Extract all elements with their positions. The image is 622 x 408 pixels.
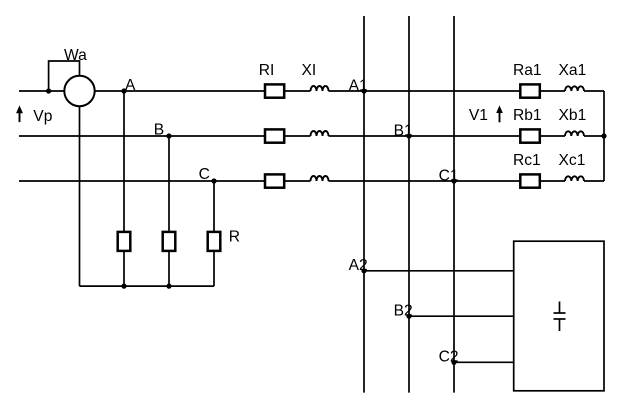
resistor RI phase C (265, 174, 284, 187)
wire phase A left segment (19, 90, 64, 92)
svg-text:Ra1: Ra1 (513, 62, 542, 79)
wire phase C from Xc1 to right bus (584, 180, 604, 182)
junction neutral at B resistor (166, 284, 171, 289)
svg-text:V1: V1 (469, 107, 488, 124)
wire phase B from RI to XI (284, 135, 310, 137)
arrow Vp (16, 105, 23, 122)
svg-text:Rb1: Rb1 (513, 107, 542, 124)
inductor Xb1 (565, 131, 584, 136)
wire phase A from Xa1 to right bus (584, 90, 604, 92)
svg-text:R: R (229, 228, 240, 245)
node C1 (451, 178, 456, 183)
wire right bus joining load phases (603, 91, 605, 181)
svg-text:Wa: Wa (64, 47, 87, 64)
svg-text:Xb1: Xb1 (559, 107, 587, 124)
resistor RI phase B (265, 129, 284, 142)
svg-text:C: C (199, 166, 210, 183)
svg-text:XI: XI (302, 62, 317, 79)
resistor Rc1 (520, 174, 540, 187)
junction neutral at A resistor (121, 284, 126, 289)
junction wattmeter voltage tap (46, 88, 51, 93)
node B1 (406, 133, 411, 138)
node C (211, 178, 216, 183)
svg-text:C1: C1 (439, 167, 459, 184)
wire A2 to capacitor box (364, 270, 514, 272)
resistor R (phase C leg) (208, 232, 221, 251)
svg-text:A: A (125, 77, 136, 94)
resistor R (phase B leg) (163, 232, 176, 251)
wire phase C left segment (19, 180, 265, 182)
wire phase B from XI to Rb1 (329, 135, 521, 137)
wire phase C from Rc1 to Xc1 (540, 180, 565, 182)
node C2 (451, 360, 456, 365)
junction right bus at phase B (601, 133, 606, 138)
svg-text:A1: A1 (349, 77, 368, 94)
resistor Rb1 (520, 129, 540, 142)
wire resistor C to neutral line (213, 251, 215, 286)
wire C2 to capacitor box (454, 361, 514, 363)
wire wattmeter bottom drop (79, 106, 81, 286)
wire phase B from Rb1 to Xb1 (540, 135, 565, 137)
bus line 1 (363, 16, 365, 393)
capacitor bank box (514, 241, 604, 391)
inductor Xa1 (565, 86, 584, 91)
svg-text:Vp: Vp (33, 108, 52, 125)
wire phase A from XI to Ra1 (329, 90, 521, 92)
arrow V1 (496, 105, 503, 122)
resistor R (phase A leg) (118, 232, 131, 251)
svg-text:RI: RI (259, 62, 275, 79)
wire phase C from XI to Rc1 (329, 180, 521, 182)
inductor XI phase C (311, 176, 329, 181)
svg-text:Xc1: Xc1 (559, 152, 586, 169)
wire node C drop to resistor (213, 181, 215, 232)
wire node B drop to resistor (168, 136, 170, 232)
wire phase A from wattmeter to resistor RI (95, 90, 265, 92)
svg-text:Xa1: Xa1 (559, 62, 587, 79)
wire resistor B to neutral line (168, 251, 170, 286)
node A (121, 88, 126, 93)
node B2 (406, 314, 411, 319)
resistor RI phase A (265, 84, 284, 97)
wire node A drop to resistor (123, 91, 125, 232)
wire phase A from RI to XI (284, 90, 310, 92)
inductor XI phase B (311, 131, 329, 136)
resistor Ra1 (520, 84, 540, 97)
wire B2 to capacitor box (409, 315, 514, 317)
inductor XI phase A (311, 86, 329, 91)
svg-text:B1: B1 (394, 122, 413, 139)
wire resistor A to neutral line (123, 251, 125, 286)
wattmeter U1 voltage loop wire (49, 61, 80, 91)
node B (166, 133, 171, 138)
svg-text:Rc1: Rc1 (513, 152, 541, 169)
inductor Xc1 (565, 176, 584, 181)
bus line 2 (408, 16, 410, 393)
wire phase A from Ra1 to Xa1 (540, 90, 565, 92)
node A2 (361, 268, 366, 273)
wire phase B from Xb1 to right bus (584, 135, 604, 137)
wire phase C from RI to XI (284, 180, 310, 182)
capacitor symbol inside box (554, 302, 566, 332)
wattmeter Wa (64, 76, 94, 106)
svg-text:B: B (154, 122, 164, 139)
node A1 (361, 88, 366, 93)
wire neutral bottom line (80, 285, 215, 287)
bus line 3 (453, 16, 455, 393)
wire phase B left segment (19, 135, 265, 137)
